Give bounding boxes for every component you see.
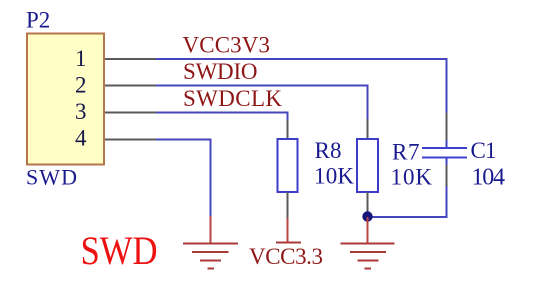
- wire pin4 horizontal: [156, 139, 212, 141]
- pin 1 lead: [105, 58, 156, 60]
- capacitor C1 bottom stub: [446, 158, 448, 166]
- resistor R7 top pin: [367, 119, 369, 139]
- wire SWDIO horizontal: [156, 85, 369, 87]
- pin 2 lead: [105, 85, 156, 87]
- svg-text:2: 2: [75, 73, 87, 98]
- wire pin4 vertical to ground: [210, 139, 212, 217]
- resistor R7 bottom pin: [367, 192, 369, 213]
- capacitor C1 bottom plate: [422, 157, 467, 159]
- svg-text:VCC3.3: VCC3.3: [249, 244, 323, 269]
- pin 3 lead: [105, 112, 156, 114]
- ground GND2 lead: [367, 217, 369, 244]
- svg-text:10K: 10K: [314, 163, 354, 188]
- svg-text:P2: P2: [26, 7, 50, 32]
- capacitor C1 bottom pin: [446, 165, 448, 186]
- svg-text:SWDCLK: SWDCLK: [183, 86, 282, 111]
- svg-text:4: 4: [75, 126, 87, 151]
- svg-text:104: 104: [472, 165, 506, 191]
- svg-text:3: 3: [75, 99, 87, 124]
- ground GND1 lead: [210, 216, 212, 244]
- pin 4 lead: [105, 139, 156, 141]
- svg-text:C1: C1: [471, 138, 497, 163]
- resistor R8 bottom pin: [287, 192, 289, 218]
- svg-text:SWD: SWD: [26, 165, 77, 190]
- wire junction horizontal: [368, 216, 448, 218]
- wire SWDIO vertical to R7: [367, 85, 369, 120]
- resistor R7 body: [357, 139, 378, 192]
- junction dot: [362, 211, 372, 221]
- svg-text:SWD: SWD: [81, 228, 158, 273]
- svg-text:VCC3V3: VCC3V3: [183, 33, 271, 58]
- power VCC3.3 lead: [287, 218, 289, 243]
- svg-text:R8: R8: [315, 138, 342, 163]
- capacitor C1 top stub: [446, 140, 448, 148]
- svg-text:10K: 10K: [391, 164, 433, 189]
- capacitor C1 top plate: [422, 147, 467, 149]
- wire VCC3V3 vertical to C1: [446, 58, 448, 113]
- resistor R8 top pin: [287, 120, 289, 139]
- power VCC3.3 bar: [276, 242, 301, 244]
- svg-text:SWDIO: SWDIO: [183, 59, 258, 84]
- svg-text:1: 1: [75, 46, 87, 71]
- wire SWDCLK vertical to R8: [287, 112, 289, 121]
- ground GND1 bars: [183, 244, 238, 269]
- svg-text:R7: R7: [392, 140, 420, 165]
- capacitor C1 top pin: [446, 113, 448, 140]
- resistor R8 body: [278, 139, 298, 192]
- wire VCC3V3 horizontal: [156, 58, 448, 60]
- connector P2 body: [27, 34, 104, 165]
- ground GND2 bars: [341, 244, 395, 269]
- wire SWDCLK horizontal: [156, 112, 289, 114]
- wire C1 bottom vertical: [446, 186, 448, 218]
